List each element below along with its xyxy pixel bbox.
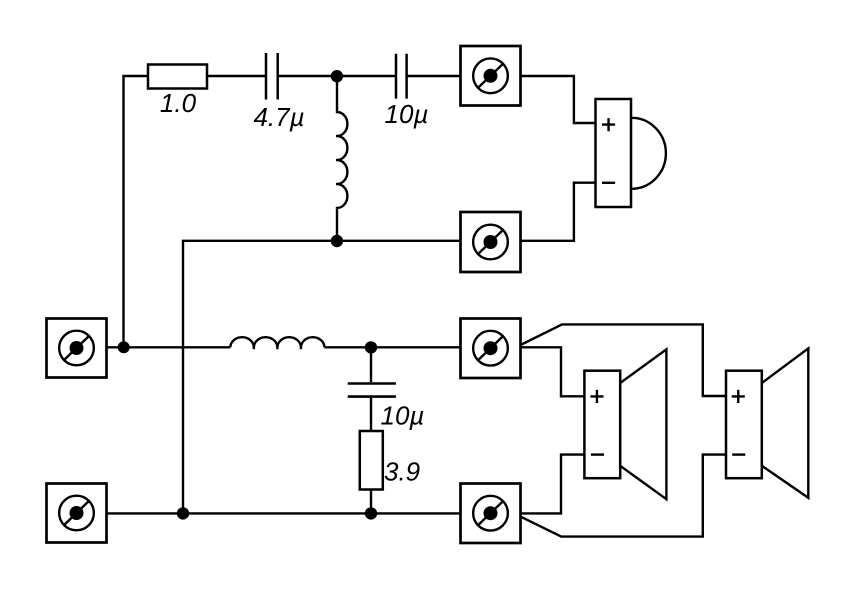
inductor L1	[336, 76, 347, 241]
svg-text:10µ: 10µ	[381, 401, 425, 431]
capacitor C2 10u	[396, 54, 407, 99]
value label 4.7u	[253, 102, 304, 132]
node B junction dot	[331, 235, 343, 247]
wire J1 to L2	[107, 346, 231, 348]
resistor R2	[360, 431, 383, 490]
inductor L2	[230, 337, 324, 349]
input terminal J2 minus	[47, 484, 107, 543]
wire L2 to terminal T3	[324, 346, 460, 348]
wire T4 diagonal to woofer2 -	[521, 455, 726, 537]
capacitor C1 4.7u	[266, 53, 278, 100]
value label 10u top	[385, 99, 429, 129]
node A junction dot	[331, 70, 343, 82]
wire R1 to C1	[207, 75, 266, 77]
capacitor C3 10u	[348, 384, 396, 397]
terminal T3	[461, 319, 521, 379]
wire T1 to tweeter +	[521, 76, 596, 123]
input terminal J1 plus	[47, 319, 107, 378]
node D junction dot	[365, 341, 377, 353]
svg-text:10µ: 10µ	[385, 99, 429, 129]
wire node A to C2	[337, 75, 396, 77]
wire C3 to R2	[370, 398, 372, 431]
bottom rail wire	[107, 512, 461, 514]
wire from top-left feed down to input+ node	[124, 76, 149, 347]
wire C2 to terminal T1	[407, 75, 461, 77]
shunt branch wire from node D	[370, 347, 372, 382]
svg-text:1.0: 1.0	[160, 88, 197, 118]
wire T3 to woofer1 +	[521, 347, 585, 396]
svg-text:3.9: 3.9	[384, 457, 420, 487]
value label 3.9	[384, 457, 420, 487]
woofer LS3	[726, 348, 808, 497]
node F junction dot	[365, 507, 377, 519]
woofer LS2	[584, 349, 666, 499]
terminal T1	[461, 46, 521, 106]
node E junction dot	[177, 507, 189, 519]
wire C1 to node A	[278, 75, 337, 77]
terminal T4	[461, 484, 521, 544]
wire T4 to woofer1 -	[521, 455, 585, 514]
wire T2 to return rail and down	[183, 241, 461, 514]
svg-text:4.7µ: 4.7µ	[253, 102, 304, 132]
wire T3 diagonal to woofer2 +	[521, 324, 727, 396]
tweeter LS1	[596, 99, 666, 207]
wire R2 to bottom rail	[370, 490, 372, 514]
wire tweeter - to terminal T2	[521, 183, 596, 241]
resistor R1	[148, 65, 207, 89]
value label 1.0	[160, 88, 197, 118]
terminal T2	[461, 212, 521, 272]
node C junction dot	[118, 341, 130, 353]
value label 10u bottom	[381, 401, 425, 431]
